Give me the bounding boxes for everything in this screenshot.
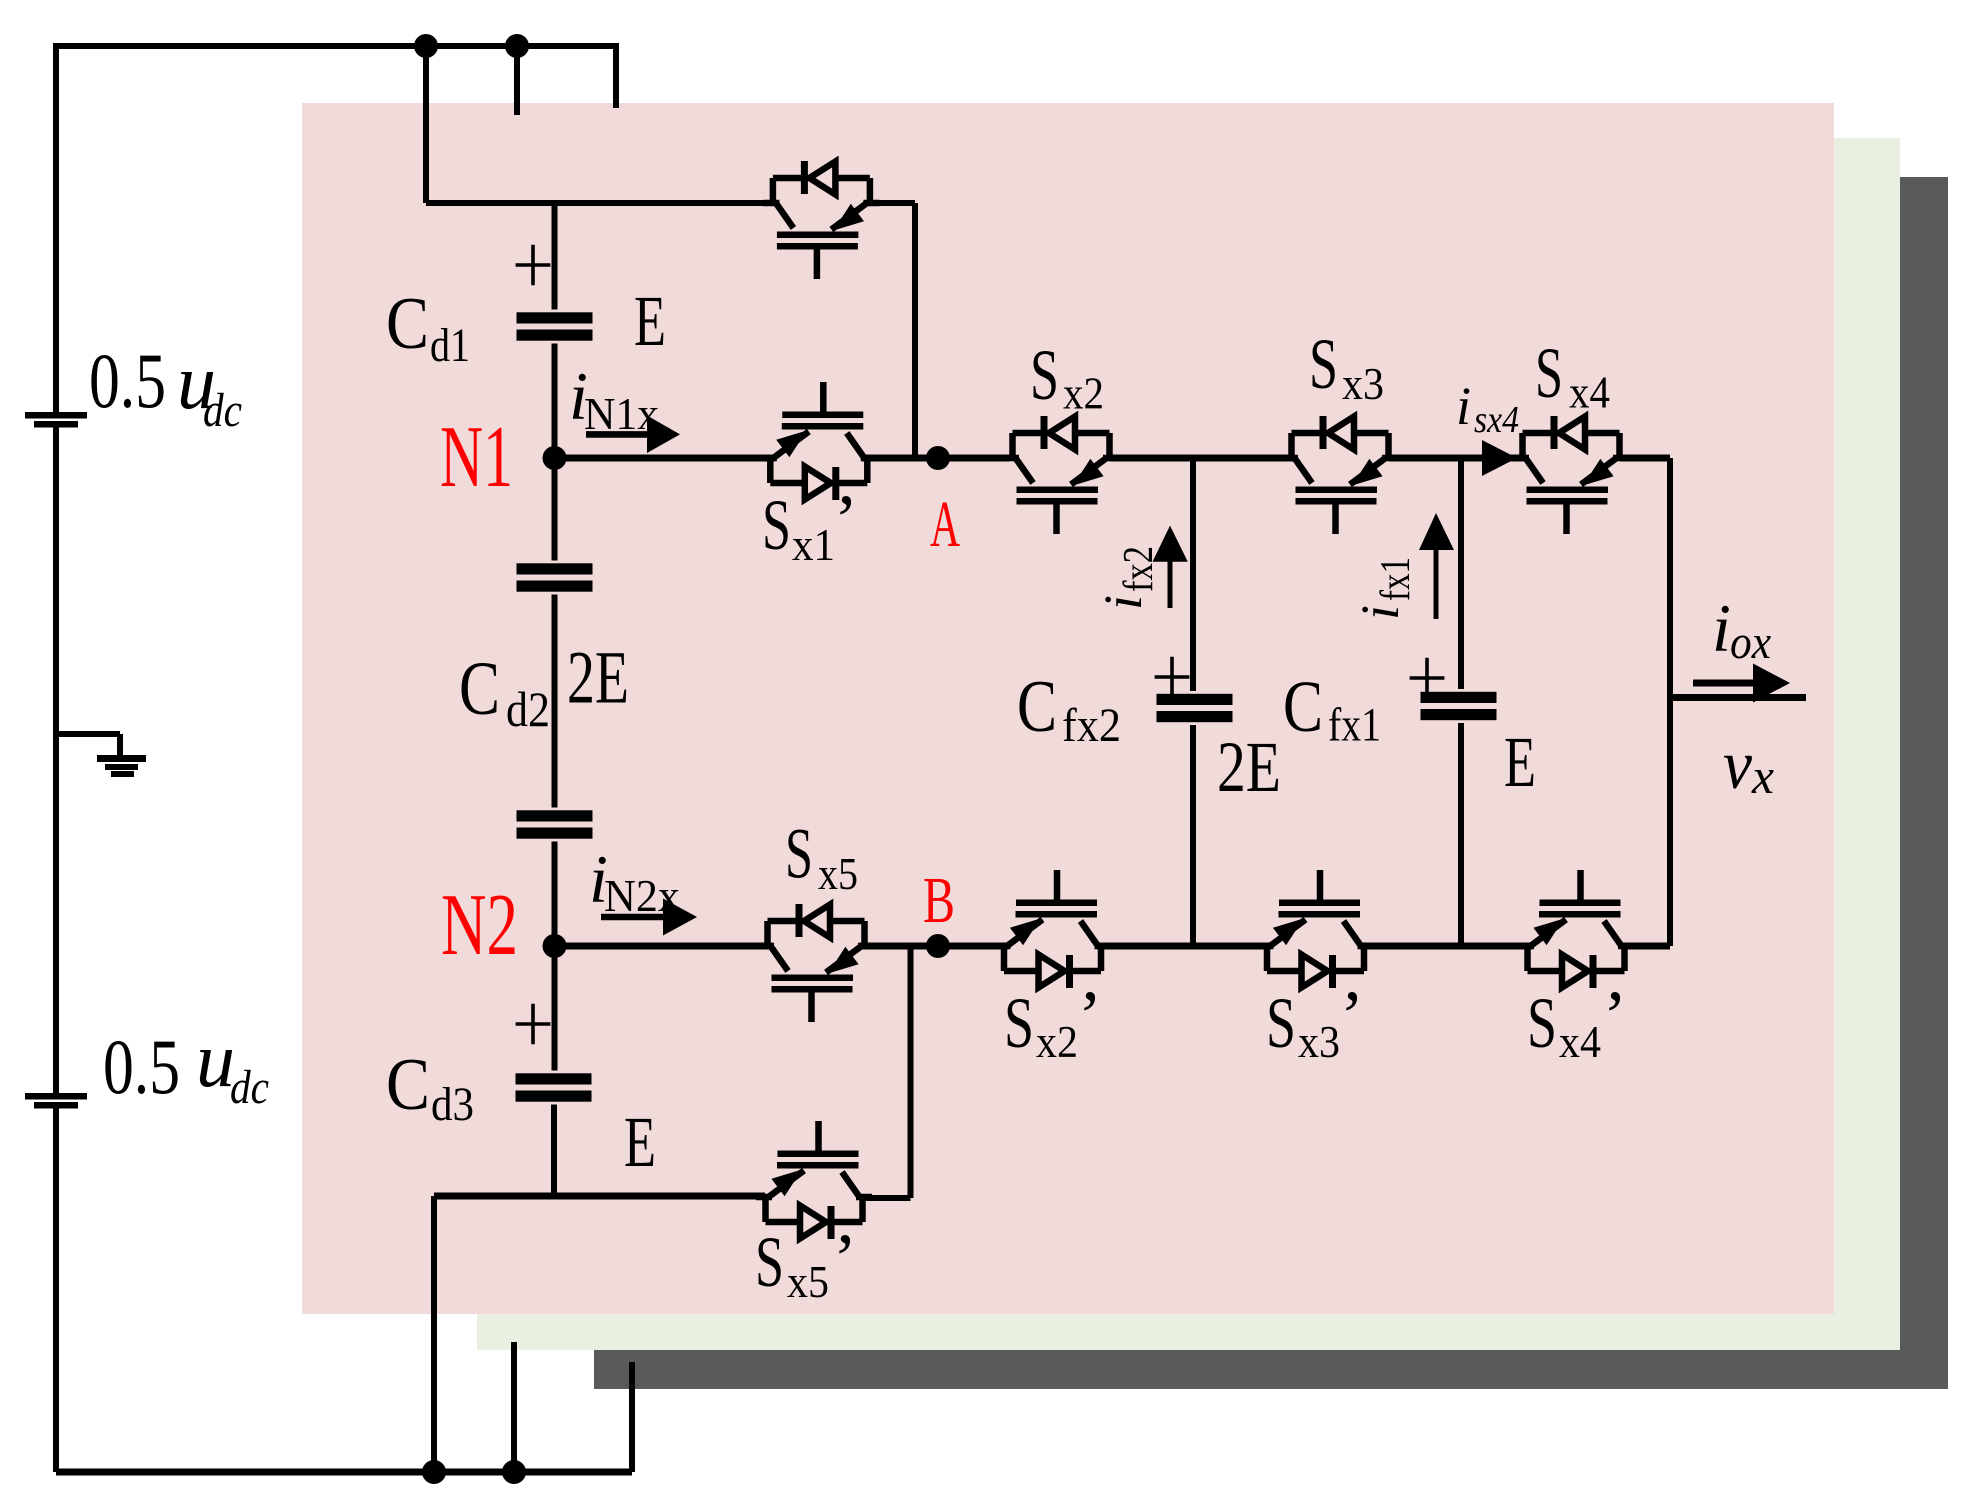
svg-text:x5: x5: [818, 849, 858, 899]
svg-text:x3: x3: [1298, 1017, 1340, 1067]
svg-text:S: S: [1030, 335, 1059, 415]
svg-text:N2x: N2x: [604, 870, 680, 921]
svg-text:d3: d3: [431, 1078, 474, 1131]
svg-text:2E: 2E: [1217, 727, 1281, 807]
svg-text:C: C: [459, 647, 500, 731]
svg-text:C: C: [1283, 666, 1323, 747]
svg-text:fx1: fx1: [1328, 699, 1381, 752]
svg-text:C: C: [386, 283, 429, 365]
svg-text:N1x: N1x: [584, 388, 659, 439]
svg-text:S: S: [785, 814, 813, 894]
svg-text:S: S: [1004, 983, 1034, 1063]
svg-text:0.5: 0.5: [89, 337, 166, 424]
svg-text:E: E: [1504, 722, 1536, 802]
svg-text:S: S: [1309, 324, 1338, 404]
svg-text:C: C: [386, 1044, 430, 1126]
svg-text:S: S: [762, 485, 791, 565]
svg-text:C: C: [1017, 666, 1057, 748]
svg-text:dc: dc: [203, 384, 242, 437]
svg-text:d2: d2: [506, 681, 550, 737]
svg-text:N2: N2: [441, 877, 518, 974]
svg-text:’: ’: [834, 480, 858, 560]
svg-text:N1: N1: [440, 409, 513, 506]
svg-text:x4: x4: [1569, 368, 1610, 418]
svg-text:x: x: [1751, 748, 1774, 804]
svg-text:’: ’: [1340, 976, 1364, 1056]
svg-text:A: A: [930, 488, 960, 561]
svg-text:S: S: [1535, 333, 1563, 413]
svg-text:0.5: 0.5: [103, 1023, 180, 1110]
svg-text:’: ’: [1603, 976, 1627, 1056]
svg-text:x1: x1: [792, 520, 835, 570]
svg-text:v: v: [1723, 727, 1753, 804]
svg-text:fx2: fx2: [1062, 699, 1121, 752]
svg-text:i: i: [1093, 595, 1153, 610]
svg-text:dc: dc: [230, 1061, 269, 1114]
svg-text:i: i: [1712, 590, 1731, 666]
svg-text:S: S: [755, 1222, 784, 1302]
svg-text:i: i: [1350, 605, 1410, 620]
svg-text:x5: x5: [787, 1257, 829, 1307]
svg-text:E: E: [634, 281, 666, 361]
svg-text:E: E: [624, 1102, 656, 1182]
svg-text:x2: x2: [1063, 369, 1104, 419]
svg-text:x3: x3: [1342, 359, 1384, 409]
svg-text:2E: 2E: [567, 637, 629, 720]
svg-text:sx4: sx4: [1474, 399, 1519, 441]
svg-text:S: S: [1266, 983, 1296, 1063]
svg-text:ox: ox: [1730, 616, 1771, 669]
svg-text:’: ’: [833, 1219, 857, 1299]
svg-text:B: B: [923, 864, 955, 937]
svg-text:d1: d1: [430, 319, 470, 372]
svg-text:fx2: fx2: [1116, 546, 1162, 592]
svg-text:fx1: fx1: [1373, 557, 1419, 601]
svg-text:S: S: [1527, 983, 1557, 1063]
svg-text:x2: x2: [1036, 1017, 1078, 1067]
svg-text:’: ’: [1078, 976, 1102, 1056]
svg-text:i: i: [1456, 376, 1471, 436]
svg-text:x4: x4: [1559, 1017, 1601, 1067]
